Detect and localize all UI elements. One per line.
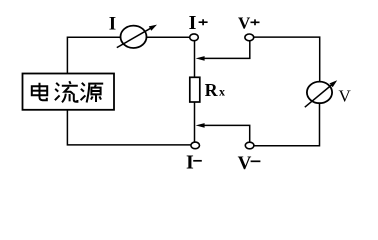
wire resistor to I- terminal	[194, 102, 196, 142]
svg-text:x: x	[219, 85, 225, 99]
label V-	[238, 153, 261, 174]
svg-text:V: V	[339, 87, 352, 106]
terminal I-	[191, 142, 200, 149]
svg-text:V: V	[238, 153, 252, 174]
wire V+ to voltmeter top	[254, 37, 320, 81]
sense wire V+ to Rx node with arrow	[196, 41, 250, 61]
svg-text:V: V	[238, 14, 251, 33]
label 电流源 (hand-drawn glyphs)	[32, 81, 103, 102]
label I-	[186, 151, 202, 173]
svg-text:I: I	[109, 13, 116, 34]
svg-text:R: R	[205, 80, 219, 100]
voltmeter V	[305, 80, 337, 107]
wire ammeter to I+ terminal	[147, 36, 190, 38]
resistor Rx	[190, 77, 200, 102]
terminal I+	[190, 34, 199, 41]
current source box	[23, 74, 115, 110]
ammeter A	[117, 25, 157, 48]
sense wire V- to Rx node with arrow	[196, 123, 250, 142]
wire voltmeter bottom to V- terminal	[254, 103, 320, 146]
label I+	[189, 12, 208, 34]
svg-text:I: I	[186, 151, 194, 173]
svg-text:I: I	[189, 12, 197, 34]
wire box bottom to I- terminal	[67, 110, 190, 145]
terminal V-	[245, 142, 254, 149]
wire box top to ammeter	[67, 37, 120, 74]
label V+	[238, 14, 260, 33]
label Rx	[205, 80, 225, 100]
terminal V+	[245, 34, 254, 41]
wire I+ down to resistor	[194, 41, 196, 78]
